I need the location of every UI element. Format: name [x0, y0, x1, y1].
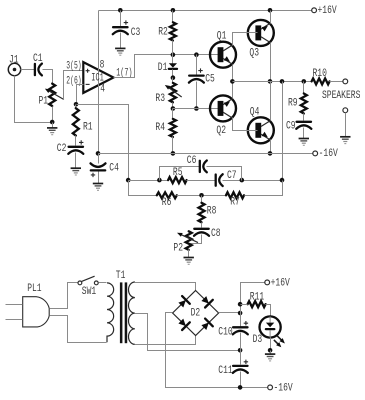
wire speaker - terminal to ground [345, 113, 347, 137]
svg-text:P1: P1 [39, 94, 49, 107]
junction C5 / drive wire [194, 52, 199, 57]
transformer T1 core [120, 282, 123, 343]
wire C10 top stem [240, 313, 242, 327]
transformer T1 primary winding [107, 283, 114, 342]
wire C3 stem [120, 11, 122, 27]
wire C4 to ground [98, 172, 100, 184]
svg-text:R8: R8 [207, 204, 217, 217]
wire bridge positive to +16V node [219, 312, 241, 314]
wire Q3 collector to output node [270, 43, 272, 82]
svg-text:C1: C1 [33, 52, 43, 65]
wire R3 bottom stem [172, 103, 174, 109]
polarity + of C5 [198, 68, 202, 72]
terminal +16V (PSU) [265, 280, 270, 285]
junction LED / mid node [268, 348, 273, 353]
wire R6 to R7 [177, 195, 227, 197]
svg-text:C9: C9 [286, 119, 296, 132]
wire R5 to C7 [187, 180, 216, 182]
wire D1 cathode stem [172, 70, 174, 78]
svg-text:R2: R2 [158, 25, 168, 38]
svg-text:Q2: Q2 [216, 124, 226, 137]
svg-text:C4: C4 [109, 161, 119, 174]
resistor R4 [170, 119, 176, 137]
wire R7 to feedback rail right [245, 181, 283, 196]
terminal -16V (amp) [313, 151, 318, 156]
wire C11 bottom stem [240, 372, 242, 388]
junction feedback rail right [280, 178, 285, 183]
junction R2 / +16V rail [171, 8, 176, 13]
wire C8 to P2 wiper [191, 235, 202, 244]
wire PL1 prong lower [6, 319, 23, 321]
transistor Q1 [210, 42, 236, 68]
wire +16V rail [99, 10, 312, 12]
svg-text:C10: C10 [218, 325, 232, 338]
resistor R6 [157, 192, 177, 198]
wire C5 top stem [196, 55, 198, 75]
junction C6 branch left [157, 178, 162, 183]
svg-text:R4: R4 [155, 121, 165, 134]
wire R8 top stem [201, 196, 203, 203]
wiper arrow of P2 [180, 234, 198, 243]
svg-text:1(7): 1(7) [116, 66, 132, 79]
wire PL1 prong upper [6, 304, 23, 306]
polarity + of C4 [91, 173, 95, 177]
junction feedback takeoff / output node [280, 79, 285, 84]
svg-text:R7: R7 [230, 195, 240, 208]
ground below speaker terminal [340, 136, 350, 138]
junction bridge + / filter column [238, 311, 243, 316]
ground below P2 [184, 257, 194, 259]
svg-text:D1: D1 [158, 61, 168, 74]
svg-text:J1: J1 [9, 53, 19, 66]
potentiometer P1 [49, 84, 55, 106]
svg-text:C3: C3 [131, 26, 141, 39]
svg-text:D2: D2 [191, 306, 201, 319]
capacitor C7 [215, 175, 217, 186]
wire R11 to LED [266, 305, 271, 317]
bridge rectifier D2 outline [173, 291, 219, 336]
wire R3-R4 node to Q2 base [173, 108, 221, 110]
svg-text:T1: T1 [116, 269, 126, 282]
plus input mark of IC1 [86, 69, 90, 73]
resistor R8 [199, 203, 205, 223]
wire P2 to ground [188, 250, 190, 258]
junction R8 / lower rail [199, 193, 204, 198]
junction R3 / R4 / Q2 base wire [171, 106, 176, 111]
wire Q4 collector to output node [270, 82, 272, 121]
wire mid node ground stem [270, 351, 272, 354]
transistor Q4 [248, 117, 274, 143]
ground below C4 [93, 183, 103, 185]
svg-text:3(5): 3(5) [66, 59, 81, 72]
svg-text:R10: R10 [313, 67, 327, 80]
transformer T1 secondary winding [128, 282, 134, 344]
junction R4 / -16V rail [171, 151, 176, 156]
capacitor C11 [233, 365, 247, 367]
wire -16V rail [99, 153, 313, 155]
wire PL1 to SW1 [50, 283, 79, 309]
bridge diode D2b (top to right) [201, 296, 209, 304]
svg-text:R5: R5 [173, 166, 183, 179]
junction R9 / output node [302, 79, 307, 84]
wire C10 bottom stem [240, 333, 242, 351]
resistor R11 [248, 301, 266, 307]
wire C4 stem top [98, 154, 100, 164]
wire Q3 emitter to +16V rail [270, 11, 272, 24]
resistor R1 [73, 108, 79, 135]
wire C7 to C6 branch right [223, 180, 283, 182]
svg-text:-16V: -16V [319, 147, 338, 160]
resistor R10 [312, 78, 330, 84]
terminal speaker + [343, 79, 348, 84]
wire R9 top stem [303, 82, 305, 94]
wire C6 branch up-left [160, 167, 200, 181]
svg-text:8: 8 [100, 58, 105, 71]
svg-text:C2: C2 [57, 142, 67, 155]
wire bridge negative to -16V wire [166, 313, 268, 388]
bridge diode D2d (bottom to right) [201, 323, 209, 331]
wire feedback middle rail left [129, 180, 169, 182]
wire Q4 emitter to -16V rail [270, 140, 272, 154]
wire secondary bottom to bridge [135, 336, 196, 345]
polarity + of C10 [244, 321, 248, 325]
svg-text:SPEAKERS: SPEAKERS [322, 89, 360, 102]
bridge diode D2a (left to top) [178, 300, 186, 308]
svg-text:4: 4 [100, 82, 105, 95]
junction Q3 collector / +16V rail [268, 8, 273, 13]
junction P1 / J1 ground node [50, 120, 55, 125]
capacitor C8 [194, 228, 208, 230]
wire R2 top stem [172, 11, 174, 23]
wire LED to mid node [270, 338, 272, 351]
junction Q4 emitter / -16V rail [268, 151, 273, 156]
wire op-amp pins 8 and 4 supply line [98, 11, 100, 154]
wire PL1 to primary bottom [50, 316, 107, 343]
switch SW1 [78, 281, 82, 285]
wire Q2 collector to Q4 base [233, 118, 258, 131]
junction inverting branch / feedback rail [126, 178, 131, 183]
wire R2 bottom stem [172, 41, 174, 55]
wire output node [233, 81, 312, 83]
wire P1 wiper to op-amp non-inverting input [64, 71, 84, 100]
wire inverting node to feedback network [77, 105, 129, 181]
ground below C9 [299, 138, 309, 140]
svg-text:R11: R11 [250, 290, 264, 303]
junction C6 branch right [240, 178, 245, 183]
junction C10 / mid node [238, 348, 243, 353]
wire R4 bottom stem [172, 137, 174, 154]
svg-text:SW1: SW1 [82, 285, 96, 298]
ground below C3 [115, 47, 125, 49]
junction C3 / +16V rail [118, 8, 123, 13]
wire R1 to C2 [75, 136, 77, 146]
terminal +16V (amp) [312, 8, 317, 13]
junction Q3/Q4 on output node [268, 79, 273, 84]
svg-text:PL1: PL1 [27, 282, 41, 295]
wire R1 top stem [75, 105, 77, 109]
wire J1 to C1 [21, 69, 35, 71]
connector J1 [8, 63, 20, 75]
svg-text:+16V: +16V [318, 4, 337, 17]
svg-text:C5: C5 [205, 72, 215, 85]
ground of supply mid node [265, 353, 275, 355]
svg-text:D3: D3 [253, 333, 263, 346]
svg-text:Q3: Q3 [249, 46, 259, 59]
bridge diode D2c (left to bottom) [178, 319, 186, 327]
wiper arrow of P1 [48, 90, 64, 99]
capacitor C3 [113, 26, 127, 28]
wire R4 top stem [172, 109, 174, 119]
wire lower rail left leg [129, 181, 157, 196]
capacitor C5 [189, 74, 203, 76]
wire Q1 collector to Q3 base [233, 33, 258, 46]
junction R11 / filter column [238, 302, 243, 307]
svg-text:C11: C11 [218, 364, 232, 377]
svg-text:P2: P2 [173, 241, 183, 254]
ground below P1 [47, 127, 57, 129]
terminal -16V (PSU) [268, 385, 273, 390]
resistor R7 [226, 192, 244, 198]
polarity + of C3 [124, 20, 128, 24]
wire ground node stem [52, 123, 54, 128]
polarity + of C2 [79, 140, 83, 144]
capacitor C6 [199, 161, 201, 172]
svg-text:R1: R1 [83, 120, 93, 133]
wire D1 anode stem [172, 55, 174, 64]
wire P1 bottom to ground node [52, 107, 54, 123]
resistor R5 [168, 177, 187, 183]
wire R3 top stem [172, 78, 174, 83]
svg-text:Q1: Q1 [217, 29, 227, 42]
wire C11 top stem [240, 351, 242, 365]
capacitor C1 [34, 64, 36, 75]
trimmer R3 [170, 83, 176, 102]
svg-text:2(6): 2(6) [66, 74, 81, 87]
op-amp IC1 [83, 62, 113, 93]
wire C1 to P1 top [43, 70, 53, 84]
wire Q2 emitter to output node [232, 82, 234, 99]
wire filter column to +16V terminal [241, 283, 265, 325]
wiper arrow of R3 [167, 87, 181, 97]
capacitor C9 [297, 121, 311, 123]
transistor Q2 [210, 95, 236, 121]
capacitor C10 [233, 326, 247, 328]
wire R9 to C9 [303, 114, 305, 121]
wire R8 to C8 [201, 223, 203, 228]
wire C5 bottom stem [196, 82, 198, 109]
junction C5 / Q2 base wire [194, 106, 199, 111]
wire C6 branch right-down [207, 167, 242, 181]
wire C2 to ground [75, 153, 77, 169]
junction inverting node / R1 [74, 102, 79, 107]
junction pin4 / C4 / -16V rail [96, 151, 101, 156]
LED D3 [260, 316, 281, 337]
wire op-amp output to drive node [114, 55, 221, 78]
wire op-amp inverting input to node [77, 85, 84, 105]
wire output to feedback network [282, 82, 284, 181]
svg-text:+16V: +16V [271, 276, 290, 289]
junction C11 / -16V wire [238, 385, 243, 390]
svg-text:-16V: -16V [274, 381, 293, 394]
wire C3 to ground [120, 33, 122, 49]
wire secondary center tap to mid node [135, 314, 241, 351]
svg-text:C7: C7 [227, 169, 237, 182]
junction R2 / D1 / drive wire [171, 52, 176, 57]
svg-text:C8: C8 [211, 227, 221, 240]
trimmer P2 [186, 231, 192, 250]
svg-text:C6: C6 [187, 154, 197, 167]
capacitor C2 [69, 146, 83, 148]
wire secondary top to bridge [135, 283, 196, 291]
ground below C2 [71, 167, 81, 169]
transistor Q3 [248, 20, 274, 46]
wire J1 sleeve to ground node [15, 76, 53, 123]
capacitor C4 [91, 169, 105, 171]
junction D1 / R3 [171, 75, 176, 80]
svg-text:R9: R9 [288, 96, 298, 109]
wire SW1 to primary top [99, 282, 107, 284]
resistor R9 [301, 94, 307, 114]
svg-text:Q4: Q4 [250, 105, 260, 118]
wire R10 to speaker terminal [330, 81, 344, 83]
wire Q1 emitter to output node [232, 65, 234, 82]
wire C9 to ground [303, 128, 305, 139]
diode D1 [169, 63, 177, 67]
terminal speaker - [343, 108, 348, 113]
polarity + of C11 [244, 360, 248, 364]
junction Q1/Q2 emitters on output node [230, 79, 235, 84]
svg-text:R6: R6 [162, 196, 172, 209]
plug PL1 [23, 297, 50, 327]
svg-text:R3: R3 [155, 92, 165, 105]
wire R11 left stem [241, 304, 248, 306]
resistor R2 [170, 22, 176, 40]
minus input mark of IC1 [86, 83, 90, 85]
